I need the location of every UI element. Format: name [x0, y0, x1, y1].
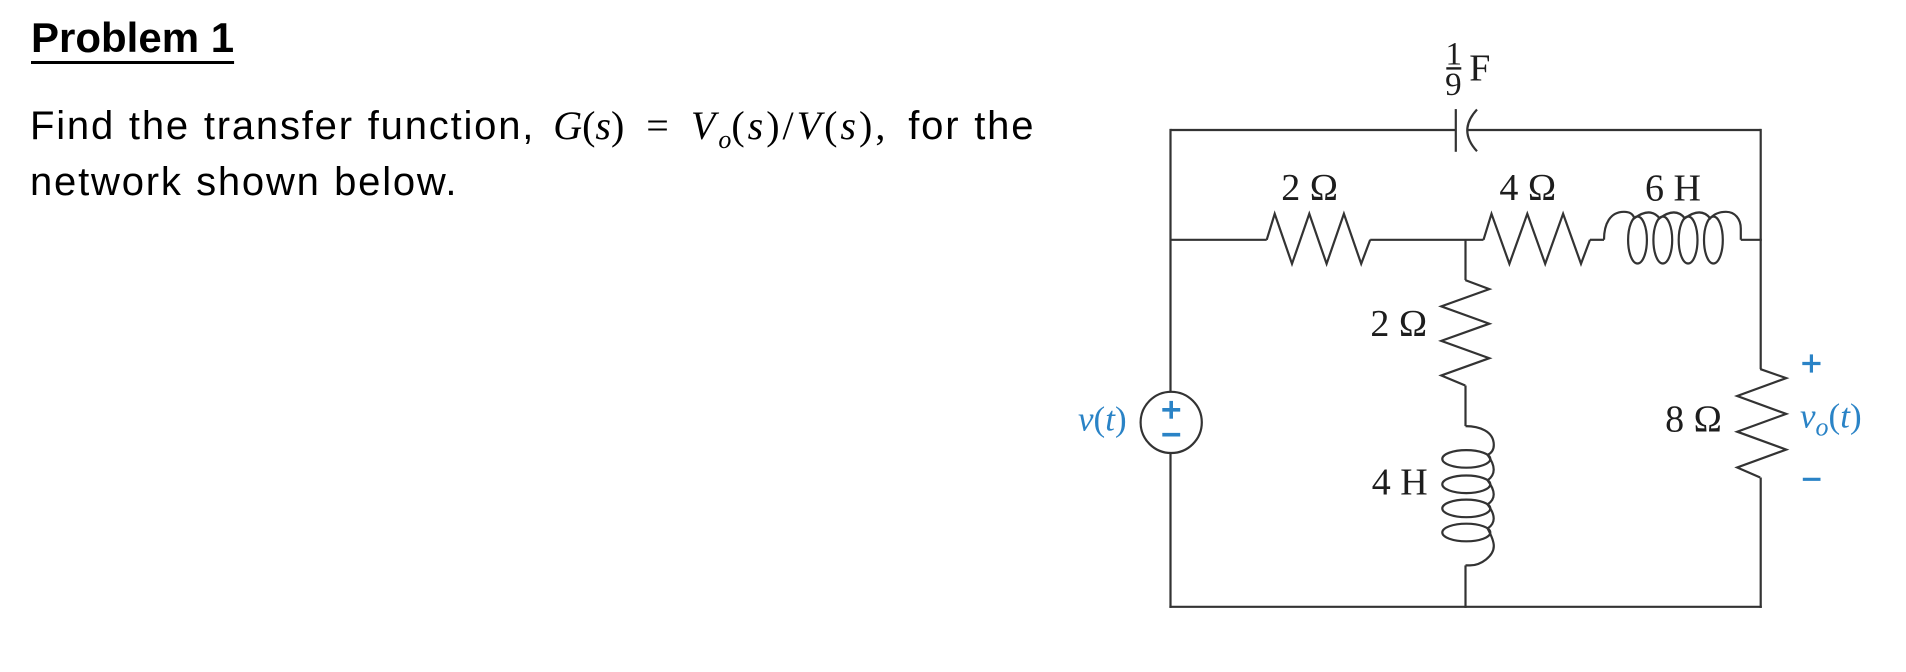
capacitor C1 1/9 F curved plate [1467, 110, 1477, 152]
inductor L1 6 H loops [1628, 217, 1647, 264]
svg-text:8 Ω: 8 Ω [1665, 399, 1722, 441]
svg-text:6 H: 6 H [1645, 167, 1701, 209]
wire: center vertical L2 to bottom wire [1464, 565, 1466, 608]
output plus sign [1802, 354, 1820, 372]
svg-text:2 Ω: 2 Ω [1281, 167, 1338, 209]
inductor L1 6 H humps [1604, 212, 1741, 240]
svg-text:4 H: 4 H [1372, 462, 1428, 504]
wire: top-left horizontal (node A to capacitor) [1171, 129, 1456, 131]
resistor R3 2 ohm zigzag (vertical) [1441, 280, 1489, 385]
wire: middle branch R1 to node C to R2 [1370, 239, 1483, 241]
problem statement line 1 [30, 102, 1035, 155]
wire: bottom horizontal [1169, 606, 1761, 608]
resistor R4 8 ohm zigzag [1737, 369, 1786, 477]
wire: left vertical lower (source to bottom-left corner) [1169, 453, 1171, 608]
voltage source V1 minus sign [1162, 433, 1180, 437]
voltage source V1 circle [1141, 392, 1202, 453]
wire: center vertical node C down to R3 [1464, 240, 1466, 280]
wire: middle branch R2 to L1 [1590, 239, 1604, 241]
capacitor C1 value label 1/9 F [1445, 37, 1490, 103]
inductor L2 4 H loops [1442, 450, 1490, 468]
voltage source V1 plus sign [1162, 401, 1180, 419]
svg-text:v(t): v(t) [1078, 400, 1127, 439]
title Problem 1 [31, 14, 234, 62]
resistor R2 4 ohm zigzag (horizontal) [1484, 214, 1591, 264]
svg-text:F: F [1469, 48, 1490, 90]
wire: middle branch L1 to right wire [1741, 239, 1762, 241]
svg-text:4 Ω: 4 Ω [1499, 167, 1556, 209]
wire: left vertical upper (node A down to source) [1169, 129, 1171, 392]
svg-text:9: 9 [1445, 67, 1462, 103]
wire: center vertical R3 to L2 [1464, 386, 1466, 427]
wire: right vertical lower (8 ohm to bottom-right corner) [1760, 478, 1762, 608]
wire: middle branch from left wire to R1 [1171, 239, 1267, 241]
wire: right vertical upper (node B down to 8 ohm) [1760, 129, 1762, 369]
svg-text:vo(t): vo(t) [1800, 397, 1862, 442]
capacitor C1 1/9 F flat plate [1455, 109, 1457, 152]
capacitor C1 fraction bar [1446, 67, 1461, 69]
output minus sign [1803, 478, 1821, 481]
inductor L2 4 H humps [1466, 426, 1494, 565]
problem statement line 2 [30, 160, 458, 205]
svg-text:2 Ω: 2 Ω [1370, 303, 1427, 345]
resistor R1 2 ohm zigzag (horizontal) [1267, 214, 1371, 264]
wire: top-right horizontal (capacitor to node B) [1468, 129, 1761, 131]
